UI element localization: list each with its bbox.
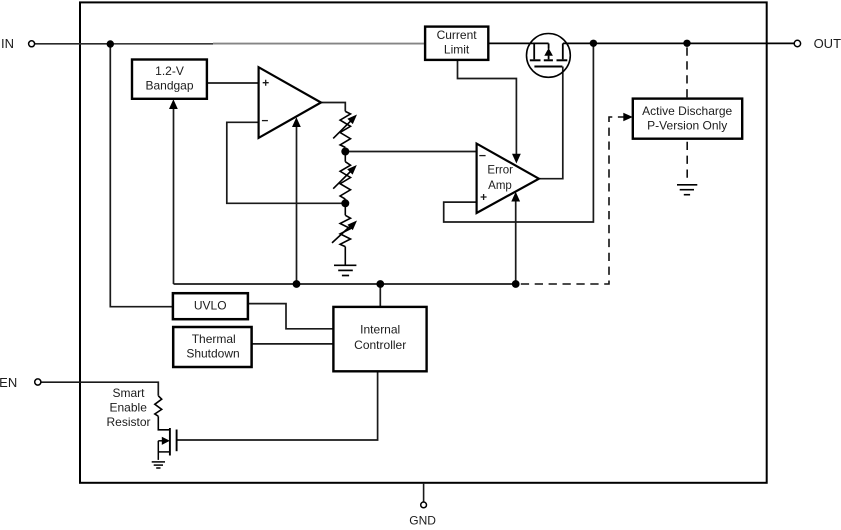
wire main rail Current Limit to PMOS (488, 42, 548, 44)
dashed wire bus to Active Discharge (521, 117, 624, 284)
wire OUT sense to error amp non-inverting input (444, 43, 594, 222)
svg-text:IN: IN (1, 36, 14, 51)
svg-text:Active Discharge: Active Discharge (642, 104, 732, 118)
resistor R3 (lower divider, variable) (332, 203, 357, 265)
wire main rail segment gray (to Current Limit) (213, 43, 425, 45)
svg-text:Controller: Controller (354, 338, 406, 352)
wire bandgap bias vertical (173, 107, 175, 284)
resistor R2 (middle divider, variable) (333, 152, 357, 204)
wire Internal Controller top stub (379, 284, 381, 307)
svg-text:Internal: Internal (360, 323, 400, 337)
dashed ground (Active Discharge) (677, 185, 697, 195)
svg-text:Current: Current (437, 28, 478, 42)
pin EN terminal (0, 375, 41, 390)
wire EN lead (41, 382, 158, 396)
box Thermal Shutdown (173, 327, 251, 367)
node divider middle (341, 199, 349, 207)
box 1.2-V Bandgap (132, 60, 207, 99)
transistor Q2 PMOS pass element (527, 34, 571, 78)
node bus error amp (512, 280, 520, 288)
box Current Limit (425, 27, 488, 60)
box UVLO (173, 293, 248, 319)
wire op-amp U1 bottom bias (296, 124, 298, 284)
pin OUT terminal (794, 36, 841, 51)
node IN junction (107, 40, 114, 47)
svg-text:Resistor: Resistor (106, 415, 150, 429)
wire Current Limit output to error amp (458, 60, 517, 155)
wire bandgap output to op-amp U1 (207, 82, 259, 84)
resistor R4 smart enable (155, 396, 170, 430)
wire UVLO output to Internal Controller (248, 304, 334, 329)
wire GND stub (423, 483, 425, 502)
svg-text:Smart: Smart (112, 386, 145, 400)
pin IN terminal (1, 36, 35, 51)
op-amp U2 Error Amp (477, 144, 539, 213)
svg-text:Amp: Amp (488, 180, 512, 192)
arrowhead into bandgap (169, 99, 178, 109)
wire Internal Controller to Q1 gate (177, 371, 378, 440)
svg-text:Error: Error (487, 165, 513, 177)
wire IN lead (35, 43, 110, 45)
box Internal Controller (333, 307, 426, 371)
svg-text:Enable: Enable (110, 400, 148, 414)
svg-text:P-Version Only: P-Version Only (647, 119, 727, 133)
ground (Q1 source) (152, 462, 165, 468)
node FB divider top (341, 148, 349, 156)
dashed wire Active Discharge to ground (686, 142, 688, 182)
arrowhead current limit into error amp (512, 154, 521, 164)
dashed wire OUT rail to Active Discharge top (686, 47, 688, 98)
wire op-amp U1 inverting input feedback (227, 122, 345, 203)
wire main rail segment dark (IN node to x213) (110, 43, 213, 45)
svg-text:Shutdown: Shutdown (186, 346, 239, 360)
node bus controller (376, 280, 384, 288)
node bus op-amp bias (293, 280, 301, 288)
svg-text:GND: GND (409, 514, 436, 528)
arrowhead into Active Discharge (623, 113, 633, 122)
svg-text:Bandgap: Bandgap (145, 79, 193, 93)
box Active Discharge P-Version Only (633, 99, 742, 139)
wire node FB to error amp inverting input (345, 151, 476, 153)
svg-text:1.2-V: 1.2-V (155, 64, 184, 78)
svg-text:Thermal: Thermal (192, 332, 236, 346)
arrowhead bias into error amp (511, 192, 520, 202)
wire ground bus (174, 283, 516, 285)
op-amp U1 (259, 67, 321, 138)
wire Thermal Shutdown output to Internal Controller (252, 343, 334, 345)
wire main rail PMOS to OUT (563, 42, 794, 44)
wire error amp output to PMOS gate (539, 67, 563, 179)
svg-text:OUT: OUT (814, 36, 841, 51)
node OUT sense junction (590, 40, 597, 47)
IC boundary box (80, 2, 767, 482)
wire error amp bottom bias (515, 199, 517, 284)
wire op-amp U1 output to divider (321, 103, 345, 112)
label Smart Enable Resistor (106, 386, 150, 429)
svg-text:EN: EN (0, 375, 17, 390)
wire IN vertical to UVLO (110, 44, 173, 307)
resistor R1 (upper divider, variable) (333, 111, 357, 151)
svg-text:Limit: Limit (444, 43, 470, 57)
ground (divider) (334, 265, 356, 275)
pin GND terminal (409, 502, 436, 528)
transistor Q1 NMOS enable (158, 428, 176, 460)
node Active Discharge rail junction (683, 40, 690, 47)
svg-text:UVLO: UVLO (194, 298, 227, 312)
arrowhead into op-amp U1 (292, 117, 301, 127)
